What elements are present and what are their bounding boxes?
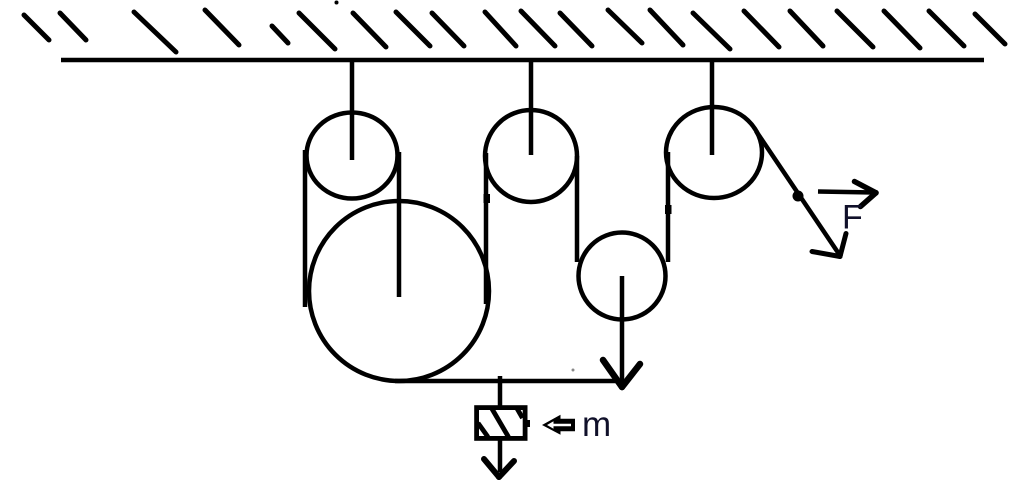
ceiling line	[61, 58, 984, 63]
wire rope left of P1	[303, 150, 308, 307]
wire bottom rope from P5 to arrow	[395, 379, 622, 384]
wire rope P2 left to P5 right	[484, 153, 489, 304]
mass box hatch bottom left	[478, 423, 488, 437]
mass box hatch main	[492, 408, 509, 437]
junction nub on rope	[484, 194, 491, 203]
stray dot top	[335, 1, 339, 5]
stray gray dot	[572, 369, 575, 372]
rod of pulley P2	[529, 60, 534, 155]
pulley P1 (top left fixed)	[307, 113, 398, 199]
arrowhead below P4	[603, 360, 640, 387]
junction nub on rope right	[665, 205, 672, 214]
wire rope diagonal from P3	[756, 131, 841, 257]
rod below mass box	[498, 440, 503, 472]
ceiling hatch marks	[24, 10, 1005, 52]
pulley P2 (top middle fixed)	[485, 110, 577, 202]
svg-text:F: F	[842, 199, 863, 237]
force F arrowhead	[855, 182, 877, 207]
arrowhead of diagonal rope	[812, 234, 846, 257]
block arrow pointing left at mass	[542, 415, 575, 435]
svg-text:m: m	[582, 405, 611, 444]
arrowhead below mass box	[484, 459, 514, 477]
wire rope P3 left to P4 right	[666, 152, 671, 262]
block arrow white inner	[547, 421, 571, 429]
pulley P5 (large movable)	[309, 201, 489, 381]
wire rope P1 right to P5 axle	[397, 152, 402, 297]
pulley P4 (small movable)	[579, 233, 666, 320]
mass box hatch top right	[517, 408, 523, 419]
node dot on diagonal rope	[793, 191, 804, 202]
rod above mass box	[498, 376, 503, 406]
force F arrow shaft	[818, 192, 874, 193]
rod of pulley P1	[350, 60, 355, 160]
wire rope P2 right to P4 left	[575, 156, 580, 262]
rope from P4 axle down	[620, 276, 625, 383]
mass box	[477, 408, 525, 439]
mass box right nub	[526, 420, 530, 427]
rod of pulley P3	[710, 60, 715, 155]
pulley P3 (top right fixed)	[666, 107, 762, 198]
